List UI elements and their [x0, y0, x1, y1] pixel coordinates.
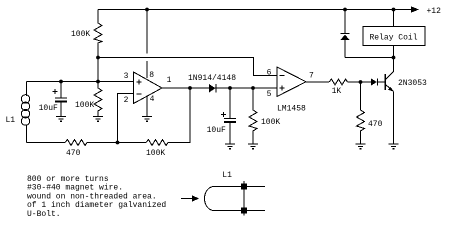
ground (under R2)	[93, 117, 103, 122]
diode D3 flyback across relay	[344, 10, 346, 34]
wire emitter down	[393, 92, 395, 145]
pointer arrow to U-bolt	[181, 198, 192, 200]
svg-text:7: 7	[309, 72, 314, 81]
wire feedback to pin2	[118, 94, 134, 143]
svg-text:470: 470	[66, 149, 81, 158]
svg-text:of 1 inch diameter galvanized: of 1 inch diameter galvanized	[27, 201, 166, 210]
node junction on rail at x=345 (diode)	[343, 8, 347, 12]
diode D1 1N914/4148	[209, 84, 215, 93]
wire relay bottom to collector node	[393, 46, 395, 58]
capacitor C1 10uF	[60, 82, 62, 98]
wire relay branch down from rail	[393, 10, 395, 27]
transistor Q1 2N3053	[384, 74, 386, 90]
wire U1A output to U1B pin5	[162, 87, 277, 89]
wire top +12 rail	[98, 9, 412, 11]
svg-text:wound on non-threaded area.: wound on non-threaded area.	[27, 192, 157, 201]
wire D2 to base	[378, 81, 385, 83]
+12 arrow	[411, 6, 419, 12]
resistor R3 470 (horizontal)	[65, 140, 87, 146]
svg-text:1: 1	[167, 76, 172, 85]
svg-text:10uF: 10uF	[207, 126, 226, 135]
resistor R6 100K (to ground)	[249, 88, 257, 144]
resistor R1 100K (top divider)	[94, 10, 102, 58]
wire divider node down to input node	[97, 58, 99, 82]
node output U1A (190,88)	[188, 86, 192, 90]
wire divider node to pin6 (horizontal)	[98, 58, 277, 76]
wire D3 to relay bottom	[345, 57, 394, 59]
wire pin8 from rail (with crossover gap)	[146, 10, 148, 54]
svg-text:Relay Coil: Relay Coil	[370, 34, 418, 43]
svg-text:2: 2	[124, 96, 129, 105]
U-bolt drawing (L1 core)	[214, 186, 265, 188]
relay coil box	[363, 27, 425, 46]
svg-text:8: 8	[149, 71, 154, 80]
svg-text:4: 4	[150, 95, 155, 104]
resistor R5 100K (feedback horizontal)	[146, 140, 168, 146]
svg-text:3: 3	[124, 72, 129, 81]
minus input mark U1B	[280, 75, 285, 77]
svg-text:100K: 100K	[75, 101, 94, 110]
wire pin4 to ground	[146, 97, 148, 117]
op-amp U1A LM1458	[134, 72, 163, 104]
svg-text:1N914/4148: 1N914/4148	[188, 74, 236, 83]
wire collector up	[393, 58, 395, 72]
ground (under C1)	[56, 117, 66, 122]
wire input net y=81.5	[27, 81, 134, 83]
wire bottom feedback rail y=142.5	[27, 142, 66, 144]
node input bias (98,81.5)	[96, 80, 100, 84]
plus input mark U1A	[137, 80, 142, 85]
wire R5 to output drop	[168, 88, 190, 143]
node relay/collector (393.5,57.5)	[392, 56, 396, 60]
node divider (98,57.5)	[96, 56, 100, 60]
node cap tap (61,81.5)	[59, 80, 63, 84]
plus polarity mark C2	[221, 112, 226, 117]
note text block	[27, 175, 166, 219]
svg-text:800 or more turns: 800 or more turns	[27, 175, 109, 184]
diode D2 (base diode)	[371, 79, 377, 86]
svg-text:LM1458: LM1458	[277, 105, 306, 114]
svg-text:100K: 100K	[146, 149, 165, 158]
svg-text:+12: +12	[427, 7, 442, 16]
svg-text:U-Bolt.: U-Bolt.	[27, 210, 61, 219]
ground (under C2)	[225, 144, 235, 149]
op-amp U1B LM1458	[277, 67, 306, 97]
svg-text:100K: 100K	[261, 118, 280, 127]
node R6 tap (253,88)	[251, 86, 255, 90]
wire R8 to base node	[348, 81, 372, 83]
node feedback junction (117.5,142.5)	[116, 141, 120, 145]
plus polarity mark C1	[53, 89, 58, 94]
resistor R2 100K (lower divider to ground)	[94, 82, 102, 117]
resistor R7 470 (base to ground)	[357, 82, 365, 144]
ground (under R6)	[248, 144, 258, 149]
node junction on rail at x=393.5 (relay)	[392, 8, 396, 12]
ground (emitter)	[389, 144, 399, 149]
svg-text:#30-#40 magnet wire.: #30-#40 magnet wire.	[27, 184, 123, 193]
wire U1B output	[306, 81, 329, 83]
node C2 tap (230,88)	[228, 86, 232, 90]
minus input mark U1A	[137, 93, 142, 95]
node base drive (360.5,82)	[359, 80, 363, 84]
svg-text:2N3053: 2N3053	[398, 79, 427, 88]
wire between R3 and R5	[87, 142, 146, 144]
svg-text:L1: L1	[222, 171, 232, 180]
svg-text:1K: 1K	[332, 87, 342, 96]
ground (op-amp pin4)	[142, 117, 152, 122]
node junction on rail at x=147	[145, 8, 149, 12]
plus input mark U1B	[280, 86, 285, 91]
capacitor C2 10uF	[229, 88, 231, 118]
svg-text:10uF: 10uF	[39, 104, 58, 113]
resistor R8 1K (horizontal)	[329, 79, 348, 85]
inductor L1 pickup coil	[26, 82, 28, 97]
svg-text:L1: L1	[6, 116, 16, 125]
svg-text:470: 470	[368, 120, 383, 129]
svg-text:5: 5	[267, 90, 272, 99]
svg-text:100K: 100K	[71, 30, 90, 39]
ground (under R7)	[356, 144, 366, 149]
svg-text:6: 6	[267, 69, 272, 78]
